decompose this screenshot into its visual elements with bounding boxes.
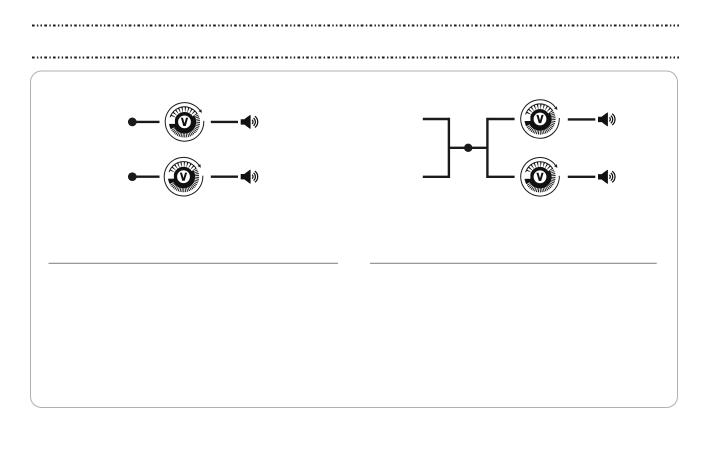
wire: input 2 to volume control 2 (132, 175, 159, 177)
volume control VC1 (165, 103, 204, 142)
wire: source stub upper (423, 118, 449, 120)
speaker SP3 (598, 113, 615, 127)
wire: branch stub lower (487, 176, 514, 178)
wire: volume control 3 to speaker 3 (568, 118, 596, 120)
speaker SP2 (241, 170, 258, 184)
volume control VC3 (521, 100, 560, 139)
wire: bus tie (449, 147, 488, 149)
wire: branch stub upper (487, 118, 514, 120)
wire: volume control 4 to speaker 4 (568, 176, 596, 178)
node: input terminal 2 (128, 172, 137, 181)
node: input terminal 1 (128, 118, 137, 127)
dotted rule top (32, 25, 679, 27)
wire: left bus vertical (448, 118, 450, 178)
volume control VC2 (164, 157, 203, 196)
caption rule left (49, 262, 339, 264)
speaker SP4 (598, 170, 615, 184)
speaker SP1 (241, 115, 258, 129)
wire: source stub lower (423, 176, 449, 178)
junction node (464, 144, 472, 152)
wire: volume control 2 to speaker 2 (211, 175, 238, 177)
wire: input 1 to volume control 1 (132, 121, 159, 123)
dotted rule second (32, 57, 679, 59)
figure frame box (31, 71, 678, 408)
volume control VC4 (521, 157, 560, 196)
caption rule right (370, 262, 657, 264)
wire: right bus vertical (486, 118, 488, 178)
wire: volume control 1 to speaker 1 (211, 121, 238, 123)
